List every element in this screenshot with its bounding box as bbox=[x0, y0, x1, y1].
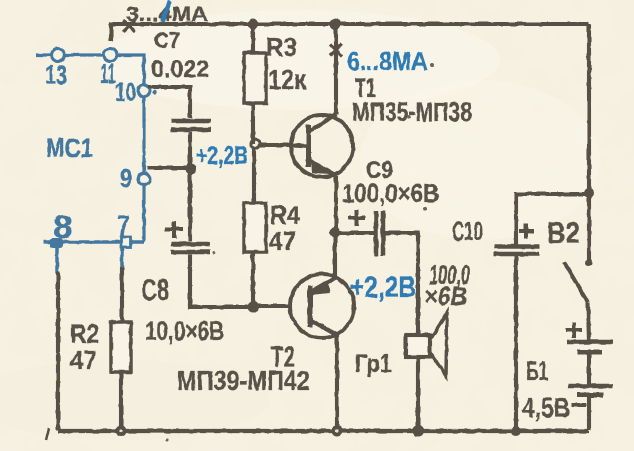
blue slash over 4 bbox=[162, 1, 170, 22]
IC MC1 blue wire top bbox=[36, 55, 144, 242]
T2 emitter arrow bbox=[310, 280, 330, 295]
wire switch feed bbox=[587, 193, 591, 263]
node R3 top bbox=[248, 19, 259, 30]
C8 plus sign bbox=[165, 221, 183, 238]
pin 11 bbox=[104, 49, 117, 62]
wire bottom rail bbox=[58, 429, 589, 433]
wire between battery cells bbox=[587, 352, 591, 386]
wire node to C9 bbox=[335, 231, 374, 235]
svg-text:47: 47 bbox=[70, 345, 97, 375]
wire pin8 column to bottom rail bbox=[56, 271, 60, 430]
svg-text:+2,2В: +2,2В bbox=[196, 140, 248, 170]
wire R4 top lead bbox=[252, 148, 256, 203]
wire node to T1 base bbox=[259, 143, 292, 147]
svg-text:×6В: ×6В bbox=[424, 281, 467, 311]
C9 plus sign bbox=[348, 210, 365, 226]
wire C7 to node bbox=[188, 132, 192, 169]
T2 emitter line bbox=[311, 278, 336, 292]
X mark on top rail bbox=[123, 20, 135, 32]
switch B2 blade bbox=[564, 262, 588, 303]
wire R4 bottom lead bbox=[251, 252, 255, 307]
svg-text:9: 9 bbox=[120, 163, 132, 193]
T2 collector line bbox=[310, 320, 337, 335]
wire R3 bottom lead bbox=[251, 103, 255, 144]
IC MC1 blue wire bottom bbox=[44, 240, 144, 244]
svg-text:11: 11 bbox=[100, 58, 116, 89]
battery minus sign bbox=[572, 403, 586, 407]
svg-text:8: 8 bbox=[53, 209, 73, 245]
wire C10 to bottom rail bbox=[514, 256, 518, 430]
wire speaker to bottom rail bbox=[416, 357, 420, 430]
node C10/switch junction bbox=[584, 188, 594, 198]
svg-text:6...8МА: 6...8МА bbox=[347, 46, 428, 76]
speaker Gr1 rect bbox=[406, 335, 430, 357]
wire T1 emitter down bbox=[334, 176, 338, 233]
C10 plus sign bbox=[519, 223, 534, 239]
capacitor C10 plates bbox=[494, 247, 539, 255]
pin 7 square bbox=[121, 237, 131, 247]
T1 base wire inside bbox=[292, 145, 308, 146]
svg-text:МС1: МС1 bbox=[46, 133, 93, 163]
svg-text:47: 47 bbox=[269, 226, 296, 256]
svg-text:МП35-МП38: МП35-МП38 bbox=[352, 97, 472, 127]
battery plus sign bbox=[566, 322, 582, 338]
svg-text:С8: С8 bbox=[141, 274, 169, 307]
svg-text:13: 13 bbox=[45, 60, 67, 90]
svg-text:Гр1: Гр1 bbox=[355, 350, 392, 378]
wire R3 top lead bbox=[251, 24, 255, 53]
wire node to T2 base bbox=[253, 304, 291, 308]
wire T2 collector to bottom rail bbox=[335, 335, 339, 430]
svg-text:10: 10 bbox=[115, 77, 136, 107]
junction C10 bottom bbox=[511, 426, 521, 436]
wire from node to C10 top bbox=[516, 194, 589, 246]
svg-text:4,5В: 4,5В bbox=[522, 392, 570, 423]
switch B2 contact bbox=[586, 260, 593, 267]
svg-text:10,0×6В: 10,0×6В bbox=[145, 316, 224, 346]
node T1 collector top bbox=[330, 19, 341, 30]
wire node to pin9 bbox=[147, 166, 191, 170]
junction R2 bottom bbox=[116, 426, 127, 437]
svg-text:7: 7 bbox=[117, 210, 130, 243]
capacitor C9 plates bbox=[376, 211, 383, 256]
pin 10 blue speck bbox=[153, 90, 157, 94]
resistor R3 bbox=[244, 53, 266, 103]
battery B1 cell1 minus plate bbox=[577, 350, 602, 355]
capacitor C7 plates bbox=[171, 121, 211, 130]
wire battery to bottom rail bbox=[587, 395, 591, 430]
svg-text:С7: С7 bbox=[154, 28, 180, 53]
wire C9 to speaker bbox=[385, 233, 418, 335]
wire T2 emitter up to node bbox=[333, 232, 337, 278]
pin 8 square bbox=[50, 238, 63, 248]
capacitor C8 plates bbox=[171, 244, 210, 252]
transistor T2 circle bbox=[290, 274, 354, 338]
node C7/C8 junction bbox=[186, 164, 197, 175]
T1 base bar bbox=[306, 125, 311, 167]
wire pin7 to R2 bbox=[120, 267, 124, 322]
node R3/R4/T1 base ring bbox=[251, 140, 260, 149]
wire R2 to bottom rail bbox=[119, 372, 123, 430]
wire switch to battery bbox=[588, 303, 589, 342]
wire pin10 to C7 bbox=[148, 87, 190, 118]
T1 collector line bbox=[309, 114, 336, 132]
svg-text:Б1: Б1 bbox=[526, 356, 548, 386]
node emitter/C9/T2 bbox=[330, 227, 341, 238]
pin 13 bbox=[52, 49, 65, 62]
pin 10 bbox=[138, 85, 150, 97]
wire T1 collector to top rail bbox=[334, 24, 338, 114]
svg-text:R3: R3 bbox=[266, 32, 297, 62]
paper specks bbox=[166, 63, 435, 442]
wire top rail bbox=[111, 24, 589, 41]
wire C8 to base node bbox=[190, 255, 253, 308]
wire pin7 blue stub bbox=[120, 247, 124, 269]
svg-text:100,0×6В: 100,0×6В bbox=[342, 178, 439, 208]
wire pin8 blue stub bbox=[55, 247, 59, 273]
node R4/C8/T2 base bbox=[248, 302, 259, 313]
speaker Gr1 horn bbox=[430, 313, 447, 376]
pin 9 bbox=[138, 173, 150, 185]
node speaker bottom bbox=[413, 426, 424, 437]
svg-text:МП39-МП42: МП39-МП42 bbox=[177, 365, 310, 396]
battery B1 cell2 plus plate bbox=[568, 384, 613, 389]
svg-text:+2,2В: +2,2В bbox=[350, 271, 416, 304]
svg-text:С10: С10 bbox=[452, 216, 483, 246]
wire node to C8 bbox=[188, 169, 192, 241]
wire right drop from top rail to C10/switch node bbox=[587, 24, 591, 193]
T2 base bar bbox=[308, 286, 313, 327]
transistor T1 circle bbox=[291, 115, 353, 177]
svg-text:12к: 12к bbox=[268, 64, 307, 95]
node T2 collector bottom bbox=[332, 426, 343, 437]
battery B1 cell2 minus plate bbox=[577, 393, 603, 398]
battery B1 cell1 plus plate bbox=[567, 340, 613, 345]
T1 emitter line bbox=[309, 160, 336, 176]
svg-text:В2: В2 bbox=[547, 217, 580, 250]
X mark on collector bbox=[330, 44, 342, 56]
resistor R4 bbox=[244, 203, 266, 252]
bottom-left tick bbox=[46, 428, 49, 440]
resistor R2 bbox=[111, 322, 131, 372]
T1 emitter arrow bbox=[311, 159, 332, 174]
svg-text:0.022: 0.022 bbox=[151, 56, 209, 83]
